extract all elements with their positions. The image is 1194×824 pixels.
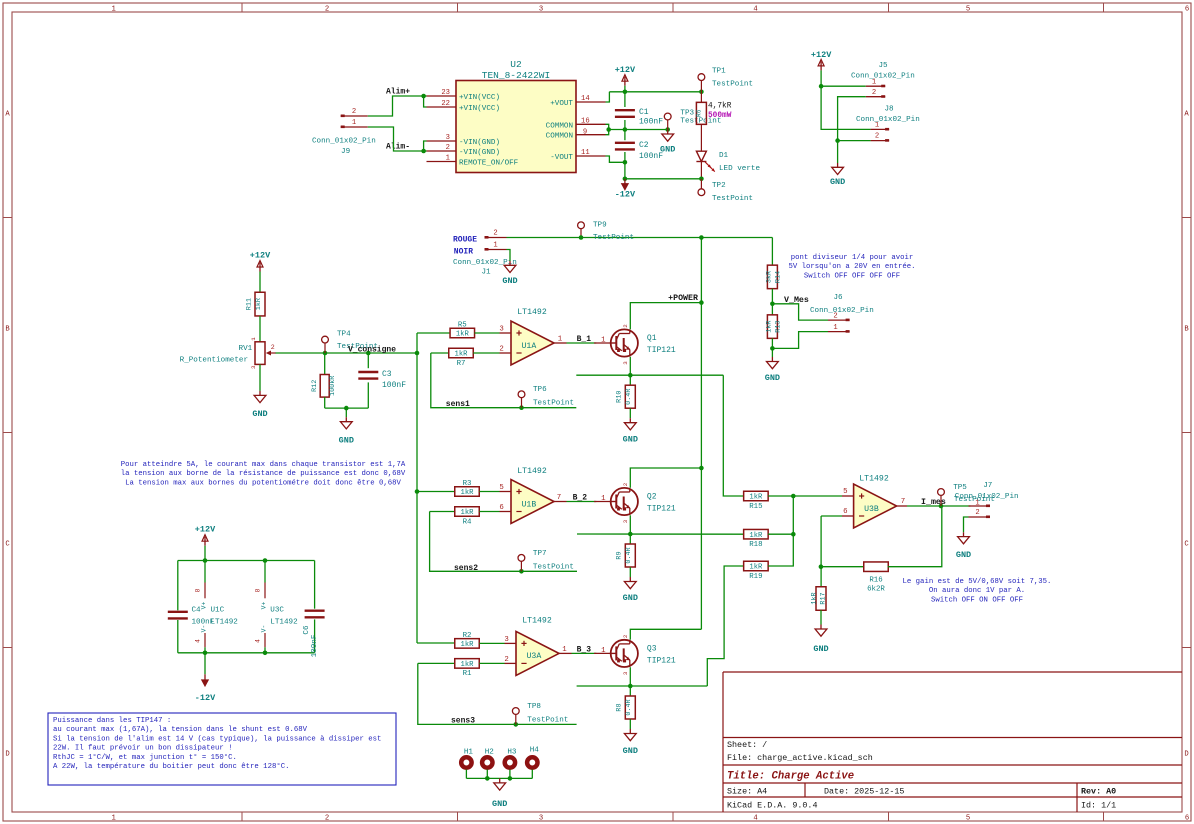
svg-text:3: 3 (499, 326, 503, 334)
svg-text:2: 2 (325, 815, 329, 823)
svg-text:GND: GND (623, 746, 638, 756)
svg-text:R_Potentiometer: R_Potentiometer (180, 356, 248, 364)
svg-text:D: D (1184, 751, 1188, 759)
svg-text:R10: R10 (616, 391, 624, 403)
svg-text:RV1: RV1 (239, 345, 253, 353)
svg-text:Q2: Q2 (647, 493, 657, 502)
svg-text:5V lorsqu'on a 20V en entrée.: 5V lorsqu'on a 20V en entrée. (789, 263, 916, 271)
svg-text:+12V: +12V (811, 50, 832, 60)
svg-text:H4: H4 (530, 747, 540, 755)
svg-text:5: 5 (966, 815, 970, 823)
svg-text:8: 8 (195, 588, 202, 592)
svg-text:1: 1 (446, 155, 450, 163)
svg-text:GND: GND (252, 409, 267, 419)
svg-text:LT1492: LT1492 (859, 475, 889, 484)
svg-text:sens2: sens2 (454, 564, 478, 573)
svg-text:U2: U2 (510, 59, 522, 70)
svg-text:V_consigne: V_consigne (348, 346, 396, 355)
svg-text:1kR: 1kR (255, 298, 263, 310)
svg-text:File: charge_active.kicad_sch: File: charge_active.kicad_sch (727, 753, 873, 763)
svg-text:Alim+: Alim+ (386, 88, 410, 97)
svg-text:LT1492: LT1492 (517, 308, 547, 317)
svg-text:4: 4 (753, 6, 757, 14)
svg-text:TIP121: TIP121 (647, 656, 676, 665)
svg-text:LT1492: LT1492 (522, 617, 552, 626)
svg-text:500mW: 500mW (708, 112, 732, 120)
svg-text:+VIN(VCC): +VIN(VCC) (459, 105, 500, 113)
svg-text:J5: J5 (878, 62, 888, 70)
svg-text:100nF: 100nF (311, 634, 319, 657)
svg-text:R7: R7 (457, 360, 466, 368)
svg-text:J7: J7 (983, 482, 992, 490)
svg-text:2: 2 (493, 230, 497, 238)
svg-text:V+: V+ (261, 602, 268, 610)
svg-text:11: 11 (581, 149, 590, 157)
svg-text:J1: J1 (481, 269, 491, 277)
svg-text:J8: J8 (884, 106, 894, 114)
svg-text:C1: C1 (639, 108, 649, 117)
svg-text:B: B (5, 326, 10, 334)
svg-text:22W. Il faut prévoir un bon di: 22W. Il faut prévoir un bon dissipateur … (53, 745, 233, 753)
svg-text:4: 4 (753, 815, 757, 823)
svg-text:TP1: TP1 (712, 68, 726, 76)
svg-text:0.4R: 0.4R (625, 699, 633, 715)
svg-text:U3A: U3A (527, 652, 542, 661)
svg-text:2: 2 (271, 344, 275, 351)
svg-text:1kR: 1kR (461, 641, 475, 649)
svg-text:R8: R8 (616, 703, 624, 711)
svg-text:GND: GND (502, 276, 517, 286)
svg-text:100nF: 100nF (639, 118, 663, 127)
svg-text:KiCad E.D.A. 9.0.4: KiCad E.D.A. 9.0.4 (727, 801, 817, 811)
svg-text:+12V: +12V (615, 65, 636, 75)
svg-text:C: C (1184, 541, 1189, 549)
svg-text:TP3: TP3 (680, 110, 694, 118)
svg-text:R18: R18 (749, 541, 762, 549)
svg-text:2: 2 (352, 108, 356, 116)
svg-text:-12V: -12V (195, 693, 216, 703)
svg-text:4: 4 (195, 639, 202, 643)
svg-text:1: 1 (833, 324, 837, 332)
svg-text:pont diviseur 1/4 pour avoir: pont diviseur 1/4 pour avoir (791, 254, 914, 262)
svg-text:TestPoint: TestPoint (712, 195, 753, 203)
svg-text:+VIN(VCC): +VIN(VCC) (459, 94, 500, 102)
svg-text:4,7kR: 4,7kR (708, 103, 732, 111)
svg-text:1kR: 1kR (455, 351, 469, 359)
svg-text:-VIN(GND): -VIN(GND) (459, 139, 500, 147)
svg-text:1: 1 (601, 495, 606, 503)
svg-text:9: 9 (583, 128, 587, 136)
svg-text:Switch OFF OFF OFF OFF: Switch OFF OFF OFF OFF (804, 272, 900, 280)
svg-text:GND: GND (956, 550, 971, 560)
svg-text:8: 8 (255, 588, 262, 592)
svg-text:B_3: B_3 (577, 646, 592, 655)
svg-text:3: 3 (250, 365, 257, 369)
svg-text:2: 2 (622, 324, 629, 328)
svg-text:R15: R15 (749, 503, 762, 511)
svg-text:D: D (5, 751, 9, 759)
svg-text:R14: R14 (775, 271, 783, 283)
svg-text:6: 6 (843, 508, 847, 516)
svg-text:U3C: U3C (270, 607, 284, 615)
svg-text:0.4R: 0.4R (625, 389, 633, 405)
svg-text:ROUGE: ROUGE (453, 236, 477, 245)
svg-text:1: 1 (112, 6, 116, 14)
svg-text:J9: J9 (341, 148, 351, 156)
svg-text:1kR: 1kR (461, 661, 475, 669)
svg-text:I_mes: I_mes (921, 498, 946, 507)
svg-text:A: A (5, 111, 10, 119)
svg-text:2: 2 (504, 656, 508, 664)
svg-text:6k2R: 6k2R (867, 586, 885, 594)
svg-text:R13: R13 (775, 320, 783, 332)
svg-text:Q1: Q1 (647, 334, 657, 343)
svg-text:Size: A4: Size: A4 (727, 787, 767, 797)
svg-text:6: 6 (1185, 6, 1189, 14)
svg-text:22: 22 (441, 100, 450, 108)
svg-text:Title: Charge Active: Title: Charge Active (727, 771, 854, 783)
svg-text:5: 5 (499, 484, 503, 492)
svg-text:3: 3 (622, 361, 629, 365)
svg-text:TP8: TP8 (527, 703, 541, 711)
svg-text:au courant max (1,67A), la ten: au courant max (1,67A), la tension dans … (53, 726, 308, 734)
svg-text:1: 1 (601, 337, 606, 345)
svg-text:TIP121: TIP121 (647, 505, 676, 514)
svg-text:H2: H2 (485, 749, 495, 757)
svg-text:RthJC = 1°C/W, et max junction: RthJC = 1°C/W, et max junction t° = 150°… (53, 753, 237, 762)
svg-text:2: 2 (622, 482, 629, 486)
svg-text:TestPoint: TestPoint (533, 400, 574, 408)
svg-text:2: 2 (975, 509, 979, 517)
svg-text:1: 1 (112, 815, 116, 823)
svg-text:23: 23 (441, 89, 450, 97)
svg-text:TP4: TP4 (337, 331, 351, 339)
svg-text:A 22W, la température du boiti: A 22W, la température du boitier peut do… (53, 762, 289, 771)
svg-text:16: 16 (581, 117, 590, 125)
svg-text:R16: R16 (869, 577, 882, 585)
svg-text:La tension max aux bornes du p: La tension max aux bornes du potentiomét… (125, 479, 401, 487)
svg-text:0.4R: 0.4R (625, 547, 633, 563)
svg-text:R11: R11 (246, 298, 254, 310)
svg-text:U1A: U1A (522, 342, 537, 351)
svg-text:TestPoint: TestPoint (593, 234, 634, 242)
svg-text:LT1492: LT1492 (270, 619, 298, 627)
svg-text:Date: 2025-12-15: Date: 2025-12-15 (824, 787, 904, 797)
svg-text:U3B: U3B (864, 505, 879, 514)
svg-text:+12V: +12V (195, 525, 216, 535)
svg-text:Si la tension de l'alim est 14: Si la tension de l'alim est 14 V (cas ty… (53, 735, 381, 743)
svg-text:Conn_01x02_Pin: Conn_01x02_Pin (312, 138, 376, 146)
svg-text:Switch OFF ON OFF OFF: Switch OFF ON OFF OFF (931, 596, 1023, 604)
svg-text:1: 1 (250, 337, 257, 341)
svg-text:1kR: 1kR (766, 320, 774, 332)
svg-text:R3: R3 (463, 480, 472, 488)
svg-text:3: 3 (622, 671, 629, 675)
svg-text:Conn_01x02_Pin: Conn_01x02_Pin (851, 73, 915, 81)
svg-text:Pour atteindre 5A, le courant: Pour atteindre 5A, le courant max dans c… (121, 461, 406, 469)
svg-text:1kR: 1kR (749, 494, 763, 502)
svg-text:TestPoint: TestPoint (533, 563, 574, 571)
svg-text:V+: V+ (201, 602, 208, 610)
svg-text:R9: R9 (616, 551, 624, 559)
svg-text:100nF: 100nF (382, 381, 406, 390)
svg-text:C: C (5, 541, 10, 549)
svg-text:2: 2 (875, 133, 879, 141)
svg-text:100kR: 100kR (329, 376, 337, 396)
svg-text:+VOUT: +VOUT (550, 100, 573, 108)
svg-text:B: B (1184, 326, 1189, 334)
svg-text:1: 1 (352, 119, 356, 127)
svg-text:3: 3 (539, 815, 543, 823)
svg-text:-VOUT: -VOUT (550, 154, 573, 162)
svg-text:C3: C3 (382, 370, 392, 379)
svg-text:GND: GND (813, 644, 828, 654)
svg-text:Le gain est de 5V/0,68V soit 7: Le gain est de 5V/0,68V soit 7,35. (903, 578, 1052, 586)
svg-text:1kR: 1kR (461, 489, 475, 497)
svg-text:R19: R19 (749, 573, 762, 581)
svg-text:1kR: 1kR (749, 564, 763, 572)
svg-text:1kR: 1kR (811, 592, 819, 604)
svg-text:+12V: +12V (250, 251, 271, 261)
svg-text:LT1492: LT1492 (517, 467, 547, 476)
svg-text:Puissance dans les TIP147 :: Puissance dans les TIP147 : (53, 717, 171, 725)
svg-text:R1: R1 (463, 670, 472, 678)
svg-text:3: 3 (504, 636, 508, 644)
svg-text:D1: D1 (719, 152, 729, 160)
svg-text:2: 2 (499, 346, 503, 354)
svg-text:2: 2 (446, 144, 450, 152)
svg-text:3: 3 (539, 6, 543, 14)
svg-text:7: 7 (557, 494, 561, 502)
svg-text:Q3: Q3 (647, 644, 657, 653)
svg-text:TP9: TP9 (593, 222, 607, 230)
svg-text:14: 14 (581, 95, 590, 103)
svg-text:sens3: sens3 (451, 717, 475, 726)
svg-text:B_2: B_2 (573, 494, 588, 503)
svg-text:J6: J6 (833, 294, 843, 302)
svg-text:REMOTE_ON/OFF: REMOTE_ON/OFF (459, 160, 519, 168)
svg-text:la tension aux borne de la rés: la tension aux borne de la résistance de… (121, 470, 406, 478)
svg-text:R5: R5 (458, 321, 467, 329)
svg-text:TP6: TP6 (533, 386, 547, 394)
svg-text:2: 2 (622, 634, 629, 638)
svg-text:-VIN(GND): -VIN(GND) (459, 149, 500, 157)
svg-text:Conn_01x02_Pin: Conn_01x02_Pin (810, 307, 874, 315)
svg-text:1: 1 (558, 336, 563, 344)
svg-text:2: 2 (833, 312, 837, 320)
svg-text:Alim-: Alim- (386, 143, 410, 152)
svg-text:GND: GND (492, 799, 507, 809)
svg-text:GND: GND (339, 436, 354, 446)
svg-text:LT1492: LT1492 (211, 619, 239, 627)
svg-text:COMMON: COMMON (546, 133, 573, 141)
svg-text:5: 5 (966, 6, 970, 14)
svg-text:3kR: 3kR (766, 271, 774, 283)
svg-text:GND: GND (623, 593, 638, 603)
svg-text:R17: R17 (820, 592, 828, 604)
svg-text:+POWER: +POWER (668, 294, 698, 303)
svg-text:A: A (1184, 111, 1189, 119)
svg-text:100nF: 100nF (639, 152, 663, 161)
svg-text:B_1: B_1 (577, 335, 592, 344)
svg-text:TP7: TP7 (533, 550, 547, 558)
svg-text:V-: V- (261, 625, 268, 633)
svg-text:TestPoint: TestPoint (712, 81, 753, 89)
svg-text:Id: 1/1: Id: 1/1 (1081, 801, 1116, 811)
svg-text:Conn_01x02_Pin: Conn_01x02_Pin (856, 116, 920, 124)
svg-text:1: 1 (493, 242, 497, 250)
svg-text:6: 6 (1185, 815, 1189, 823)
svg-text:TP5: TP5 (953, 484, 967, 492)
svg-text:C4: C4 (192, 607, 202, 615)
svg-text:1: 1 (601, 647, 606, 655)
svg-text:U1C: U1C (211, 607, 225, 615)
svg-text:GND: GND (830, 177, 845, 187)
svg-text:5: 5 (843, 488, 847, 496)
svg-text:2: 2 (872, 89, 876, 97)
svg-text:R2: R2 (463, 632, 472, 640)
svg-text:TP2: TP2 (712, 182, 726, 190)
svg-text:R4: R4 (463, 518, 472, 526)
svg-text:COMMON: COMMON (546, 122, 573, 130)
svg-text:LED verte: LED verte (719, 165, 760, 173)
svg-text:1kR: 1kR (749, 532, 763, 540)
svg-text:1: 1 (975, 499, 979, 507)
svg-text:NOIR: NOIR (454, 248, 473, 257)
svg-text:TIP121: TIP121 (647, 346, 676, 355)
svg-text:U1B: U1B (522, 500, 537, 509)
svg-text:TEN_8-2422WI: TEN_8-2422WI (482, 70, 550, 81)
svg-text:6: 6 (499, 504, 503, 512)
svg-text:On aura donc 1V par A.: On aura donc 1V par A. (929, 587, 1025, 595)
svg-text:GND: GND (765, 373, 780, 383)
svg-text:sens1: sens1 (446, 400, 470, 409)
svg-text:1kR: 1kR (461, 509, 475, 517)
svg-text:7: 7 (901, 498, 905, 506)
svg-text:Conn_01x02_Pin: Conn_01x02_Pin (955, 493, 1019, 501)
svg-text:3: 3 (446, 134, 450, 142)
svg-text:Sheet: /: Sheet: / (727, 740, 767, 750)
svg-text:3: 3 (622, 519, 629, 523)
svg-text:H3: H3 (507, 749, 517, 757)
svg-text:C6: C6 (303, 625, 311, 635)
svg-text:1kR: 1kR (456, 331, 470, 339)
svg-text:R12: R12 (311, 380, 319, 392)
svg-text:TestPoint: TestPoint (527, 716, 568, 724)
svg-text:4: 4 (255, 639, 262, 643)
svg-text:2: 2 (325, 6, 329, 14)
svg-text:1: 1 (562, 646, 567, 654)
svg-text:Rev: A0: Rev: A0 (1081, 787, 1116, 797)
svg-text:GND: GND (623, 435, 638, 445)
svg-text:R6: R6 (696, 109, 703, 117)
svg-text:H1: H1 (464, 749, 474, 757)
svg-text:C2: C2 (639, 141, 649, 150)
svg-text:-12V: -12V (615, 190, 636, 200)
